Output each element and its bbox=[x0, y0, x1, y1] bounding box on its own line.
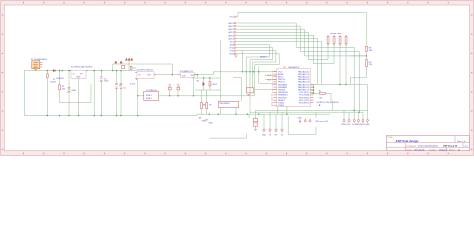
svg-text:PA2 (ADC2): PA2 (ADC2) bbox=[298, 76, 310, 79]
svg-text:GND: GND bbox=[209, 123, 214, 125]
svg-text:RXD: RXD bbox=[230, 48, 235, 50]
svg-text:AREF: AREF bbox=[278, 73, 284, 76]
svg-text:PD3: PD3 bbox=[267, 79, 271, 81]
svg-text:IC2 REGULATOR7805: IC2 REGULATOR7805 bbox=[71, 66, 93, 69]
svg-text:SW RESET: SW RESET bbox=[220, 103, 231, 105]
svg-text:Sheet:: Sheet: bbox=[449, 148, 455, 151]
svg-text:PA3 (ADC3): PA3 (ADC3) bbox=[298, 78, 310, 81]
svg-text:IC4 MAX1724: IC4 MAX1724 bbox=[180, 70, 194, 73]
svg-text:PD2: PD2 bbox=[267, 75, 271, 77]
svg-text:ADC2: ADC2 bbox=[228, 28, 234, 31]
svg-text:SDA: SDA bbox=[230, 44, 235, 47]
svg-text:VCC: VCC bbox=[230, 17, 235, 19]
svg-text:ADC5: ADC5 bbox=[228, 37, 234, 40]
svg-text:ISP conn 2x3: ISP conn 2x3 bbox=[316, 121, 329, 123]
svg-text:University Embedded: University Embedded bbox=[418, 145, 439, 148]
svg-text:1N4004: 1N4004 bbox=[56, 78, 64, 80]
svg-text:ADC0: ADC0 bbox=[228, 22, 234, 25]
svg-text:AVCC: AVCC bbox=[278, 76, 284, 79]
svg-text:Q1 RESON: Q1 RESON bbox=[146, 90, 157, 92]
svg-text:TXD: TXD bbox=[230, 51, 235, 53]
svg-text:PB3/AIN1: PB3/AIN1 bbox=[278, 86, 288, 89]
svg-text:ADC4: ADC4 bbox=[228, 34, 234, 37]
svg-text:Company:: Company: bbox=[407, 146, 417, 148]
svg-text:X1 POWERJACK: X1 POWERJACK bbox=[31, 58, 48, 61]
svg-text:GND: GND bbox=[202, 121, 207, 123]
svg-text:Drawn:: Drawn: bbox=[430, 148, 437, 151]
svg-text:T.Nguyen: T.Nguyen bbox=[439, 149, 449, 151]
svg-text:LED1: LED1 bbox=[212, 84, 218, 86]
svg-text:GND: GND bbox=[71, 90, 76, 92]
svg-text:IC3 REG LM1117: IC3 REG LM1117 bbox=[137, 70, 154, 72]
svg-text:PC1 (SDA): PC1 (SDA) bbox=[299, 94, 310, 97]
svg-text:14: 14 bbox=[271, 105, 273, 107]
svg-text:XTAL1: XTAL1 bbox=[278, 104, 285, 107]
svg-text:BLUETOOTH MODULE: BLUETOOTH MODULE bbox=[317, 102, 340, 104]
svg-text:2013-04-08: 2013-04-08 bbox=[414, 149, 425, 151]
svg-text:Rev: 1.0: Rev: 1.0 bbox=[457, 141, 466, 143]
svg-text:ESP Group 05: ESP Group 05 bbox=[443, 145, 458, 148]
svg-text:XTAL2: XTAL2 bbox=[146, 97, 153, 100]
svg-text:100uF: 100uF bbox=[50, 82, 57, 84]
svg-text:ESP final design: ESP final design bbox=[396, 139, 419, 143]
svg-text:GND: GND bbox=[365, 124, 370, 126]
svg-text:XTAL2: XTAL2 bbox=[278, 102, 285, 105]
svg-text:PA6 (ADC6): PA6 (ADC6) bbox=[298, 86, 310, 89]
svg-text:10uF: 10uF bbox=[130, 84, 135, 86]
svg-text:PD2 (INT0): PD2 (INT0) bbox=[299, 103, 310, 105]
svg-text:PA1 (ADC1): PA1 (ADC1) bbox=[298, 73, 310, 76]
svg-text:PA0 (ADC0): PA0 (ADC0) bbox=[298, 70, 310, 73]
svg-text:XTAL1: XTAL1 bbox=[146, 94, 153, 97]
svg-text:PA4 (ADC4): PA4 (ADC4) bbox=[298, 81, 310, 84]
svg-text:PA5 (ADC5): PA5 (ADC5) bbox=[298, 83, 310, 86]
svg-text:Date:: Date: bbox=[407, 148, 412, 151]
svg-text:ADC3: ADC3 bbox=[228, 31, 234, 34]
svg-text:PA7 (ADC7): PA7 (ADC7) bbox=[298, 89, 310, 92]
svg-text:GND: GND bbox=[76, 77, 81, 79]
svg-text:PB2/AIN0: PB2/AIN0 bbox=[278, 83, 288, 86]
svg-text:RESET: RESET bbox=[260, 57, 268, 59]
svg-text:TITLE:: TITLE: bbox=[387, 137, 393, 139]
svg-text:GND: GND bbox=[262, 134, 267, 136]
svg-text:ADC1: ADC1 bbox=[228, 25, 234, 28]
svg-text:sensor conn: sensor conn bbox=[330, 32, 342, 35]
svg-text:VCC: VCC bbox=[347, 124, 352, 126]
svg-text:GND: GND bbox=[298, 118, 303, 120]
svg-text:MEGA16-P: MEGA16-P bbox=[289, 66, 301, 69]
